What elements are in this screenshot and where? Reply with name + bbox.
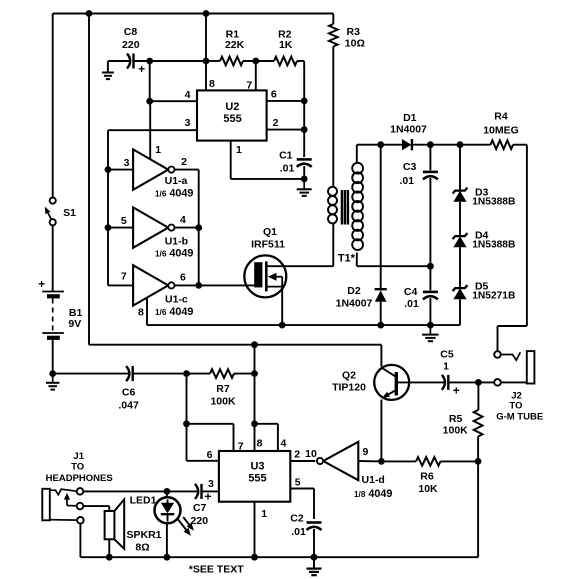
- svg-text:C3: C3: [403, 161, 417, 173]
- ground C2 bottom rail: [307, 557, 322, 575]
- node U1-a input junction: [105, 166, 112, 173]
- wire battery to ground junction: [52, 340, 54, 374]
- svg-text:C1: C1: [279, 149, 293, 161]
- node U2 pin6 junction: [301, 98, 308, 105]
- wire to R6: [381, 460, 416, 462]
- wire R4 right down to J2: [498, 145, 527, 352]
- wire inverter output bus: [198, 170, 200, 286]
- svg-text:LED1: LED1: [130, 494, 157, 506]
- pin 8 label U2: [209, 78, 215, 90]
- node LED bottom: [164, 554, 171, 561]
- op-amp U2 555 body: [197, 90, 267, 140]
- resistor R2 1K: [274, 29, 304, 66]
- svg-text:.01: .01: [280, 163, 295, 175]
- label T1: [338, 253, 356, 265]
- node LED1 top junction: [164, 488, 171, 495]
- svg-text:220: 220: [191, 515, 209, 527]
- wire U1-b input: [108, 227, 133, 229]
- svg-text:3: 3: [185, 117, 191, 129]
- pin 2 label U3: [294, 449, 300, 461]
- svg-text:R3: R3: [347, 26, 361, 38]
- op-amp U3 555 body: [219, 451, 290, 502]
- pin 6 label U3: [207, 449, 213, 461]
- wire J1 top contact to LED node: [83, 490, 167, 492]
- inverter U1-b 4049: [121, 207, 194, 259]
- wire gate of Q1: [199, 284, 255, 286]
- wire switch to battery: [52, 225, 54, 291]
- wire battery-loop vertical: [88, 14, 90, 345]
- wire supply line to Q2 base: [89, 344, 381, 346]
- LED LED1: [130, 491, 194, 536]
- svg-text:S1: S1: [63, 207, 76, 219]
- svg-text:6: 6: [271, 88, 277, 100]
- svg-text:IRF511: IRF511: [251, 238, 285, 250]
- wire D4 to D5: [459, 247, 461, 288]
- svg-text:R7: R7: [216, 383, 230, 395]
- wire U2 pin 8: [205, 61, 207, 90]
- switch S1: [45, 198, 76, 226]
- svg-text:R4: R4: [494, 110, 508, 122]
- svg-text:+: +: [38, 277, 45, 291]
- wire U3 pin 4 jog: [255, 424, 278, 451]
- wire T1 secondary bottom: [357, 253, 431, 267]
- wire U1-a pin 1 supply: [149, 101, 151, 160]
- wire R7 left down: [186, 374, 188, 424]
- svg-text:TO: TO: [509, 401, 522, 412]
- svg-text:1: 1: [236, 144, 242, 156]
- wire R5R6 junction down to bottom rail: [477, 461, 479, 557]
- svg-text:10MEG: 10MEG: [483, 124, 519, 136]
- wire R1 branch from top rail: [205, 14, 207, 62]
- svg-text:100K: 100K: [210, 395, 236, 407]
- svg-text:T1*: T1*: [338, 253, 356, 265]
- svg-text:2: 2: [294, 449, 300, 461]
- node D2 top junction: [377, 141, 384, 148]
- wire U1-c pin 8 ground: [146, 298, 148, 326]
- svg-text:C8: C8: [124, 26, 138, 38]
- capacitor C5 1: [440, 349, 478, 398]
- node R7 right junction: [251, 370, 258, 377]
- wire bottom rail: [80, 556, 478, 558]
- svg-text:22K: 22K: [225, 39, 245, 51]
- pin 1 label U2: [236, 144, 242, 156]
- node R1/R2 junction pin7: [252, 58, 259, 65]
- svg-text:1: 1: [443, 361, 449, 373]
- svg-text:8: 8: [257, 438, 263, 450]
- svg-text:8: 8: [138, 307, 144, 319]
- wire ground rail: [147, 324, 430, 326]
- label see text: [189, 563, 244, 575]
- svg-text:D1: D1: [403, 112, 417, 124]
- node Q1 source on ground rail: [279, 322, 286, 329]
- wire C8 to ground corner: [107, 61, 109, 72]
- transistor Q2 TIP120: [332, 365, 409, 400]
- wire D1 to zener branch: [430, 144, 460, 146]
- diode D1 1N4007: [381, 112, 431, 151]
- svg-text:1K: 1K: [279, 39, 293, 51]
- svg-text:8: 8: [209, 78, 215, 90]
- wire speaker down: [108, 539, 110, 557]
- capacitor C1 .01: [279, 149, 312, 179]
- svg-text:6: 6: [207, 449, 213, 461]
- node Q2 emitter / U1-d / R6 junction: [378, 458, 385, 465]
- wire R3 to T1 primary: [332, 47, 334, 188]
- svg-text:C7: C7: [193, 502, 207, 514]
- svg-text:D2: D2: [347, 285, 361, 297]
- wire T1 secondary top: [357, 145, 381, 164]
- wire ground to C6: [53, 373, 130, 375]
- wire U3 pin 6 jog: [187, 424, 219, 461]
- node U3 pin7/pin6 junction: [183, 420, 190, 427]
- svg-text:U1-d: U1-d: [362, 474, 385, 486]
- node battery minus junction: [49, 370, 56, 377]
- wire U2 pin 2: [267, 129, 305, 131]
- transistor Q1 IRF511: [244, 226, 286, 298]
- inverter U1-a 4049: [124, 149, 194, 199]
- ground battery minus: [46, 374, 60, 390]
- capacitor C4 .01: [404, 266, 438, 325]
- svg-text:4: 4: [185, 89, 191, 101]
- svg-text:3: 3: [208, 478, 214, 490]
- zener D4 1N5388B: [453, 230, 516, 251]
- svg-text:SPKR1: SPKR1: [126, 529, 161, 541]
- zener D3 1N5388B: [453, 187, 516, 208]
- svg-text:U1-b: U1-b: [165, 235, 188, 247]
- svg-text:1/8 4049: 1/8 4049: [354, 488, 392, 500]
- node C3/C4 junction: [427, 263, 434, 270]
- wire U1-a output: [175, 169, 199, 171]
- capacitor C8 220: [108, 26, 150, 76]
- resistor R4 10MEG: [483, 110, 527, 149]
- svg-text:7: 7: [121, 271, 127, 283]
- wire zener branch to R4: [460, 144, 491, 146]
- svg-text:10: 10: [305, 448, 317, 460]
- pin 8 label U1-c: [138, 307, 144, 319]
- node zener top junction: [457, 141, 464, 148]
- pin 1 label U3: [261, 508, 267, 520]
- svg-text:C5: C5: [440, 349, 454, 361]
- wire Q1 drain: [282, 224, 333, 266]
- svg-text:.047: .047: [118, 400, 139, 412]
- wire C8 node down to pin 4: [149, 61, 151, 101]
- svg-text:4: 4: [280, 438, 286, 450]
- wire R5 bottom: [477, 437, 479, 462]
- wire U1-b output: [175, 227, 199, 229]
- svg-text:1: 1: [261, 508, 267, 520]
- svg-text:TIP120: TIP120: [332, 382, 366, 394]
- svg-text:5: 5: [121, 215, 127, 227]
- svg-text:1N5388B: 1N5388B: [472, 197, 515, 208]
- transformer T1 core: [342, 190, 348, 225]
- svg-text:100K: 100K: [443, 425, 469, 437]
- jack J2 to G-M tube: [494, 351, 543, 423]
- resistor R1 22K: [206, 29, 245, 66]
- wire U3 pin 7 jog: [187, 424, 234, 451]
- pin 6 label U2: [271, 88, 277, 100]
- node top rail / battery-loop junction: [86, 10, 93, 17]
- speaker SPKR1 8ohm: [105, 499, 162, 553]
- zener D5 1N5271B: [453, 281, 516, 302]
- svg-text:9: 9: [362, 446, 368, 458]
- wire U2 pin 6: [267, 100, 305, 102]
- capacitor C3 .01: [399, 145, 437, 267]
- capacitor C7 220: [167, 484, 219, 527]
- svg-text:1/6 4049: 1/6 4049: [155, 248, 193, 260]
- svg-text:8Ω: 8Ω: [135, 541, 149, 553]
- svg-text:G-M TUBE: G-M TUBE: [496, 412, 543, 423]
- svg-text:C2: C2: [290, 513, 304, 525]
- node C1 bottom / U2 pin1 junction: [301, 176, 308, 183]
- svg-text:3: 3: [124, 157, 130, 169]
- capacitor C6 .047: [118, 366, 139, 412]
- wire U3 pin 5: [290, 489, 314, 520]
- node C5 / R5 / J2 junction: [475, 379, 482, 386]
- wire to J2 tip contact: [478, 381, 494, 383]
- svg-text:7: 7: [246, 79, 252, 91]
- svg-text:2: 2: [273, 117, 279, 129]
- wire J1 sleeve down: [79, 524, 81, 558]
- svg-text:*SEE TEXT: *SEE TEXT: [189, 563, 244, 575]
- node C3 top junction: [427, 141, 434, 148]
- svg-text:U1-a: U1-a: [165, 175, 188, 187]
- wire LED1 down to bottom rail: [166, 523, 168, 557]
- svg-text:HEADPHONES: HEADPHONES: [46, 473, 113, 484]
- svg-text:+: +: [138, 62, 145, 76]
- pin 3 label U2: [185, 117, 191, 129]
- wire U2 pin 4: [150, 100, 197, 102]
- svg-text:Q2: Q2: [342, 370, 356, 382]
- wire middle contact to speaker: [83, 506, 109, 511]
- svg-text:U2: U2: [225, 101, 239, 113]
- pin 7 label U3: [238, 440, 244, 452]
- resistor R7 100K: [210, 369, 255, 407]
- pin 8 label U3: [257, 438, 263, 450]
- wire supply down to U3 pin8: [254, 345, 256, 451]
- wire U3 pin 1: [254, 502, 256, 558]
- svg-text:U3: U3: [250, 461, 264, 473]
- ground C1: [297, 179, 312, 196]
- svg-text:+: +: [453, 384, 460, 398]
- node U3 pin1 bottom: [251, 554, 258, 561]
- svg-text:6: 6: [180, 272, 186, 284]
- wire zener column top: [459, 145, 461, 191]
- wire U3 pin2 to U1-d: [290, 460, 315, 462]
- ground HV section: [422, 325, 439, 341]
- svg-text:5: 5: [295, 477, 301, 489]
- svg-text:1N5271B: 1N5271B: [472, 290, 515, 301]
- pin 5 label U3: [295, 477, 301, 489]
- svg-text:J1: J1: [73, 451, 84, 462]
- node U1-c output junction: [195, 282, 202, 289]
- svg-text:R5: R5: [449, 413, 463, 425]
- wire C8 node to R1 line: [133, 60, 206, 62]
- node U1-b input junction: [105, 224, 112, 231]
- wire U1-c input: [108, 284, 133, 286]
- pin 7 label U2: [246, 79, 252, 91]
- resistor R5 100K: [443, 382, 483, 436]
- wire R2 down to pin6/pin2/C1: [303, 61, 305, 157]
- svg-text:220: 220: [122, 39, 140, 51]
- svg-text:10K: 10K: [418, 483, 438, 495]
- wire U2 pin 3: [108, 129, 197, 131]
- node U3 pin8/pin4 junction: [251, 420, 258, 427]
- svg-text:7: 7: [238, 440, 244, 452]
- svg-text:2: 2: [181, 156, 187, 168]
- resistor R6 10K: [416, 457, 441, 495]
- node C8 / pin4 branch: [146, 58, 153, 65]
- svg-text:.01: .01: [404, 298, 419, 310]
- wire U1-c output: [175, 284, 199, 286]
- wire R1 to R2: [243, 60, 274, 62]
- svg-text:TO: TO: [71, 461, 84, 472]
- wire C6 to R7: [133, 373, 210, 375]
- node top rail / R1 branch junction: [203, 10, 210, 17]
- wire battery branch down to switch: [52, 14, 54, 198]
- wire top supply rail: [53, 13, 334, 15]
- node R5/R6 ground junction: [475, 458, 482, 465]
- svg-text:C4: C4: [404, 286, 418, 298]
- wire Q2 emitter down: [380, 400, 382, 462]
- svg-text:555: 555: [223, 113, 241, 125]
- wire top rail corner to R3: [332, 14, 334, 25]
- svg-text:.01: .01: [291, 526, 306, 538]
- pin 1 label U1-a: [155, 144, 161, 156]
- svg-text:4: 4: [180, 214, 186, 226]
- resistor R3 10ohm: [329, 24, 365, 50]
- svg-text:R6: R6: [420, 470, 434, 482]
- node R1 left: [203, 58, 210, 65]
- svg-text:Q1: Q1: [263, 226, 277, 238]
- svg-text:1N4007: 1N4007: [390, 124, 427, 136]
- svg-text:U1-c: U1-c: [165, 293, 188, 305]
- node C4 bottom on ground rail: [427, 322, 434, 329]
- node U1-b output junction: [195, 224, 202, 231]
- pin 2 label U2: [273, 117, 279, 129]
- inverter U1-d 4049: [305, 442, 392, 500]
- wire U2 pin 1: [231, 141, 305, 179]
- battery B1 9V: [38, 277, 82, 338]
- svg-text:1/6 4049: 1/6 4049: [155, 306, 193, 318]
- wire R6 to R5 junction: [441, 460, 479, 462]
- svg-text:555: 555: [248, 473, 266, 485]
- wire U1-d input: [358, 460, 381, 462]
- transformer T1 secondary winding: [352, 163, 363, 250]
- node R7 left junction: [183, 370, 190, 377]
- wire U2 pin 7: [255, 61, 257, 90]
- node D2 bottom on ground rail: [377, 322, 384, 329]
- wire Q2 collector: [396, 381, 445, 383]
- capacitor C2 .01: [290, 513, 321, 558]
- svg-text:1/6 4049: 1/6 4049: [155, 188, 193, 200]
- pin 4 label U2: [185, 89, 191, 101]
- ground C8: [102, 73, 114, 80]
- svg-text:.01: .01: [399, 175, 414, 187]
- diode D2 1N4007: [336, 145, 387, 325]
- wire U1-a input: [108, 169, 133, 171]
- svg-text:C6: C6: [122, 386, 136, 398]
- node supply to U3 pins 4-8: [251, 341, 258, 348]
- wire D3 to D4: [459, 202, 461, 237]
- svg-text:B1: B1: [69, 307, 83, 319]
- pin 3 label U3: [208, 478, 214, 490]
- transformer T1 primary winding: [328, 187, 337, 224]
- wire Q2 base down: [380, 345, 382, 367]
- wire U2 pin3 bus down: [107, 130, 109, 285]
- svg-text:1N5388B: 1N5388B: [472, 239, 515, 250]
- pin 4 label U3: [280, 438, 286, 450]
- node U2 pin2 junction: [301, 126, 308, 133]
- node speaker bottom: [106, 554, 113, 561]
- wire Q1 source down: [281, 287, 283, 326]
- svg-text:1: 1: [155, 144, 161, 156]
- node C2 bottom: [311, 554, 318, 561]
- svg-text:10Ω: 10Ω: [345, 38, 365, 50]
- wire zener column bottom: [430, 299, 460, 325]
- jack J1 to headphones: [42, 451, 112, 524]
- svg-text:1N4007: 1N4007: [336, 297, 373, 309]
- node U2 pin4 / U1-a pin1 junction: [146, 98, 153, 105]
- svg-text:9V: 9V: [68, 318, 81, 330]
- inverter U1-c 4049: [121, 265, 194, 318]
